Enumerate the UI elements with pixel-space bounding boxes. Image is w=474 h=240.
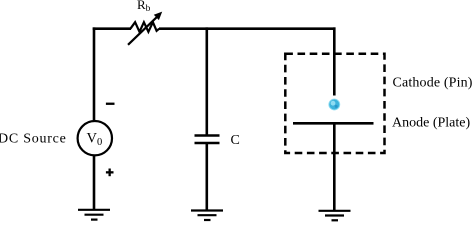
wire: capacitor branch vertical from top wire to top plate: [206, 27, 209, 135]
wire: capacitor branch vertical from bottom plate to ground: [206, 143, 209, 211]
wire: anode vertical from plate to ground: [333, 123, 336, 211]
dashed enclosure box (phototube): [285, 54, 384, 153]
label plus terminal: [106, 169, 114, 177]
svg-text:Rb: Rb: [137, 0, 151, 14]
wire: top horizontal right segment (resistor to cathode branch): [159, 27, 336, 30]
anode plate (horizontal line in box): [293, 122, 374, 125]
wire: cathode branch vertical from top wire down into box: [333, 27, 336, 95]
svg-text:Anode (Plate): Anode (Plate): [392, 116, 470, 131]
resistor Rb (variable, zigzag with arrow): [130, 22, 159, 32]
wire: left vertical from V0 to ground: [93, 155, 96, 210]
ground (left, under V0): [78, 210, 110, 220]
voltage source V0 (circle): [78, 121, 112, 155]
resistor Rb arrow: [128, 12, 162, 45]
svg-text:V0: V0: [87, 131, 103, 148]
wire: top horizontal left segment (node from V0 to resistor): [93, 27, 131, 30]
svg-text:Cathode (Pin): Cathode (Pin): [393, 76, 473, 91]
svg-text:DC Source: DC Source: [0, 132, 67, 147]
cathode pin dot (blue): [328, 99, 340, 111]
label minus terminal: [106, 103, 115, 105]
capacitor C plates: [195, 136, 220, 144]
ground (middle, under capacitor): [191, 211, 223, 221]
ground (right, under anode): [319, 211, 351, 221]
svg-text:C: C: [231, 133, 240, 148]
wire: left vertical from top wire to V0: [93, 27, 96, 121]
